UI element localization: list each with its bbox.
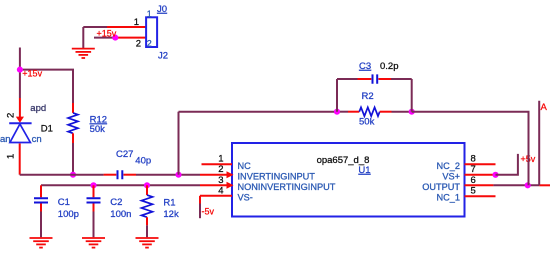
diode D1 pin 1 (anode wire)	[19, 144, 21, 175]
resistor R1 bottom pin	[146, 217, 148, 225]
wire C3 right horizontal	[391, 78, 412, 80]
diode D1 cathode bar	[9, 122, 31, 124]
svg-text:C27: C27	[116, 149, 133, 160]
svg-text:R1: R1	[163, 198, 175, 209]
svg-text:50k: 50k	[90, 124, 106, 135]
wire feedback horizontal to R2	[179, 111, 338, 113]
svg-text:40p: 40p	[135, 156, 151, 167]
wire C2 to ground	[93, 212, 95, 238]
svg-text:7: 7	[471, 164, 476, 175]
svg-text:0.2p: 0.2p	[380, 61, 399, 72]
svg-text:3: 3	[218, 175, 223, 186]
capacitor C3 left pin	[358, 78, 372, 80]
wire C27 to pin2	[136, 174, 200, 176]
svg-text:-5v: -5v	[202, 207, 215, 217]
node feedback/row2 junction	[175, 172, 181, 178]
op-amp U1 body	[232, 143, 465, 217]
pin 2 arrow	[227, 171, 234, 178]
pin 1 stub	[202, 163, 233, 165]
power -5v wire	[199, 196, 201, 204]
resistor R1 zigzag	[142, 195, 153, 217]
capacitor C1 plates	[34, 198, 48, 202]
diode D1 arrow marker	[16, 117, 24, 123]
resistor R12 top pin	[72, 103, 74, 113]
svg-text:C1: C1	[58, 197, 70, 208]
svg-text:4: 4	[218, 185, 223, 196]
svg-text:2: 2	[136, 39, 141, 50]
svg-text:D1: D1	[41, 124, 53, 135]
node C2 top	[90, 182, 96, 188]
svg-text:R2: R2	[362, 91, 374, 102]
svg-text:NC: NC	[238, 161, 252, 171]
pin 3 arrow	[227, 182, 234, 189]
wire feedback vertical	[178, 112, 180, 175]
ground (C2)	[82, 238, 105, 248]
resistor R2 right pin	[380, 111, 392, 113]
pin 7 stub	[465, 174, 495, 176]
wire VS+ to +5v	[496, 154, 518, 175]
wire +15v left down to diode	[19, 70, 21, 98]
svg-text:1: 1	[218, 154, 223, 165]
ground (J2) wire	[82, 27, 84, 48]
node R12/row2 junction	[70, 172, 76, 178]
node output/feedback junction	[525, 182, 531, 188]
wire C3 left vertical	[336, 79, 338, 112]
wire left node to R12 top	[20, 70, 73, 103]
svg-text:J0: J0	[157, 4, 167, 15]
ground (C1)	[30, 238, 53, 248]
wire net A vertical	[538, 101, 540, 186]
svg-text:U1: U1	[358, 165, 370, 176]
svg-text:1: 1	[134, 17, 139, 28]
svg-text:NC_2: NC_2	[437, 161, 461, 171]
pin 5 stub	[465, 195, 496, 197]
wire R12 bottom to row2	[72, 143, 74, 175]
capacitor C27 plates	[118, 170, 123, 179]
diode D1 triangle	[10, 124, 31, 143]
connector J2 body	[146, 17, 157, 47]
svg-text:OUTPUT: OUTPUT	[422, 182, 460, 192]
node +15v on J2 pin2	[112, 35, 118, 41]
node R2 right	[409, 109, 415, 115]
capacitor C3 plates	[373, 74, 378, 83]
ground (R1)	[136, 238, 159, 248]
svg-text:VS+: VS+	[442, 172, 460, 182]
resistor R12 zigzag	[68, 113, 78, 133]
svg-text:2: 2	[147, 39, 152, 49]
resistor R1 top pin	[146, 185, 148, 195]
node R1 top	[144, 182, 150, 188]
capacitor C27 right pin	[124, 174, 137, 176]
svg-text:cn: cn	[32, 134, 42, 145]
wire R2 right	[392, 111, 412, 113]
capacitor C1 top pin	[40, 185, 42, 197]
resistor R2 zigzag	[359, 107, 379, 116]
node VS+ junction	[492, 172, 498, 178]
svg-text:1: 1	[147, 9, 152, 19]
svg-text:50k: 50k	[359, 116, 375, 127]
capacitor C2 top pin	[93, 185, 95, 197]
capacitor C2 plates	[87, 198, 101, 202]
svg-text:NC_1: NC_1	[437, 193, 461, 203]
pin 2 stub	[200, 174, 232, 176]
wire C1 to ground	[40, 212, 42, 238]
pin 8 stub	[465, 163, 496, 165]
wire R1 to ground	[146, 225, 148, 237]
svg-text:A: A	[541, 102, 548, 113]
node +15v junction	[17, 67, 23, 73]
wire feedback to output	[412, 112, 529, 186]
svg-text:1: 1	[6, 154, 17, 159]
svg-text:8: 8	[471, 154, 476, 165]
pin 4 stub	[200, 195, 232, 197]
svg-text:an: an	[0, 134, 11, 145]
wire output row	[493, 184, 539, 186]
svg-text:2: 2	[6, 113, 17, 118]
svg-text:12k: 12k	[163, 209, 179, 220]
pin 3 stub	[200, 184, 232, 186]
capacitor C27 left pin	[104, 174, 117, 176]
wire C3 left horizontal	[337, 78, 358, 80]
svg-text:C3: C3	[359, 61, 371, 72]
wire row3 left	[41, 184, 200, 186]
wire R2 left	[337, 111, 348, 113]
svg-text:2: 2	[218, 164, 223, 175]
wire J2 pin1	[83, 26, 107, 28]
svg-text:5: 5	[471, 185, 476, 196]
wire row2 left (diode to C27)	[20, 174, 104, 176]
capacitor C1 bottom pin	[40, 204, 42, 212]
ground (J2) symbol	[72, 49, 95, 58]
svg-text:VS-: VS-	[238, 193, 253, 203]
wire C3 right vertical	[411, 79, 413, 112]
node R2 left	[334, 109, 340, 115]
capacitor C2 bottom pin	[93, 204, 95, 212]
diode D1 pin 2 (cathode wire)	[19, 98, 21, 118]
resistor R2 left pin	[348, 111, 359, 113]
svg-text:J2: J2	[158, 51, 168, 62]
svg-text:+15v: +15v	[22, 68, 42, 78]
pin 6 stub	[465, 184, 494, 186]
wire J2 pin2	[94, 37, 115, 39]
svg-text:INVERTINGINPUT: INVERTINGINPUT	[238, 172, 316, 182]
svg-text:+15v: +15v	[97, 28, 117, 38]
wire +15v vertical left top	[19, 48, 21, 70]
svg-text:apd: apd	[30, 103, 46, 114]
svg-text:100p: 100p	[58, 209, 79, 220]
svg-text:100n: 100n	[110, 209, 131, 220]
capacitor C3 right pin	[378, 78, 391, 80]
resistor R12 bottom pin	[72, 133, 74, 143]
svg-text:C2: C2	[110, 197, 122, 208]
svg-text:NONINVERTINGINPUT: NONINVERTINGINPUT	[238, 182, 336, 192]
svg-text:6: 6	[471, 175, 476, 186]
